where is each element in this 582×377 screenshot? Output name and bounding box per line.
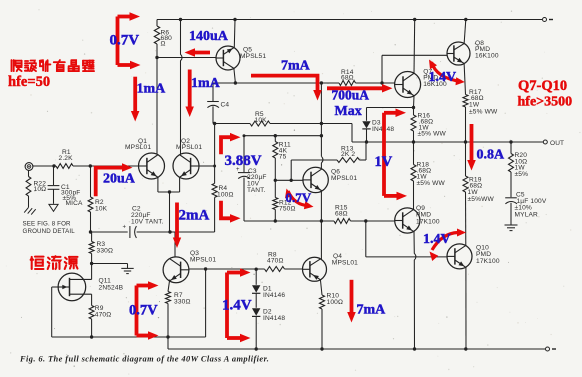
svg-text:IN4148: IN4148 [263,315,285,322]
resistor R9 [89,306,94,338]
svg-text:1.4V: 1.4V [222,298,252,314]
wire Q6 base [275,179,303,181]
svg-text:1V: 1V [375,154,393,170]
svg-text:1.4V: 1.4V [423,232,451,247]
svg-text:17K100: 17K100 [416,218,440,225]
label R17 .68 ohm [469,89,498,116]
label 1.4V mid-right [423,232,451,247]
wire Q3 collector to tail node [174,232,176,257]
transistor Q7 [395,72,421,98]
label hfe>3500 red [518,95,573,110]
label R20 10 ohm [515,152,529,178]
resistor R10 [320,295,325,349]
label R11 4K75 [279,141,291,160]
label 20uA [103,171,136,186]
caption figure 6 [19,355,269,364]
svg-text:MPSL01: MPSL01 [125,144,151,151]
node top rail junction dots [179,18,468,21]
label R6 680 ohm [161,30,173,48]
svg-text:1W: 1W [468,189,479,196]
annotation 1V bracket [384,109,407,201]
capacitor C2 [123,225,137,239]
label 700uA Max [332,88,370,120]
wire feedback node horizontal [91,231,215,233]
resistor R18 [411,142,416,210]
label R18 .68 ohm [417,162,446,188]
label C1 300pF [61,184,83,207]
resistor R15 [334,219,351,224]
node dots on R5 wire [213,122,323,125]
label C2 220uF [131,205,164,225]
svg-text:10K: 10K [255,117,268,124]
svg-text:1mA: 1mA [191,76,221,91]
svg-text:hfe=50: hfe=50 [8,74,50,90]
svg-text:1mA: 1mA [137,82,167,97]
label 1mA left [137,82,167,97]
ground earth mid [121,268,133,273]
label 7mA bottom [357,303,387,318]
svg-text:2.2K: 2.2K [59,155,74,162]
svg-text:0.7V: 0.7V [286,190,312,205]
wire Q11 drain up [91,264,93,280]
svg-text:MPSL01: MPSL01 [331,175,357,182]
resistor R12 [273,180,278,221]
svg-text:MICA: MICA [66,200,84,207]
svg-text:10Ω: 10Ω [34,186,47,193]
wire input to Q1 base [33,165,139,167]
annotation 2mA arrow [173,203,181,249]
label Q8 PMD 16K100 [475,40,499,60]
transistor Q1 [139,153,165,179]
svg-text:10K: 10K [95,205,108,212]
node input junction dots [52,164,92,167]
resistor R3 [89,232,94,264]
wire R4 vertical branch [214,124,216,233]
wire Q2 base tap [199,165,216,168]
label Q1 MPSL01 [125,138,151,151]
wire Q3 emitter [168,280,170,292]
svg-text:+: + [123,225,127,231]
wire Q9 emitter down with hop [414,231,416,349]
label 0.8A [477,148,506,163]
wire Q6 emitter to R15 node [320,191,322,221]
wire Q1 Q2 emitter join [158,177,180,232]
annotation 1.4V curve at Q9 Q10 [430,229,467,262]
resistor R19 [463,142,468,246]
resistor R8 [265,267,285,272]
svg-text:470Ω: 470Ω [95,312,112,319]
annotation 0.7V bracket top-left [118,12,141,69]
wire Q5 collector to rail [233,20,236,48]
wire Q11 source to R9 [91,294,93,305]
label R4 100 ohm [217,185,234,199]
svg-text:C4: C4 [221,102,230,109]
label OUT [550,140,564,147]
svg-text:0.7V: 0.7V [110,33,140,49]
terminal +V rail end [543,18,554,22]
annotation 7mA arrow top [251,76,322,101]
transistor Q11 JFET [58,273,91,301]
svg-text:2mA: 2mA [179,208,210,224]
svg-text:17K100: 17K100 [476,258,500,265]
annotation 0.7V diagonal at Q6 [285,189,314,210]
wire R15 rail y221 [244,220,395,222]
terminal bottom rail end [546,347,557,351]
label Chinese constant current source [31,256,78,269]
wire Q3 base to bias node [189,268,206,270]
svg-text:2K 2: 2K 2 [341,151,355,158]
node D1 top dot [255,268,258,271]
svg-text:Max: Max [335,104,362,119]
label C4 [221,102,230,109]
node output rail dots [365,140,513,143]
label Q6 MPSL01 [331,168,357,182]
svg-text:7mA: 7mA [357,303,387,318]
label 1mA right [191,76,221,91]
node dots x321 [320,134,323,137]
wire output rail [352,141,543,143]
transistor Q4 [303,257,327,281]
svg-text:±5% WW: ±5% WW [418,131,447,138]
label R1 2.2K [59,149,74,162]
capacitor C5 [505,198,517,225]
wire Q2 collector from rail with crossover hop [181,20,183,155]
svg-text:140uA: 140uA [189,29,229,44]
svg-text:330Ω: 330Ω [174,298,191,305]
label 0.7V top-left [110,33,140,49]
wire +V top supply rail [157,19,542,21]
annotation 20uA bracket [96,163,133,196]
label R14 68 ohm [341,69,354,82]
label Q10 PMD 17K100 [476,245,500,265]
annotation 0.7V bracket bottom-left [137,281,159,340]
diode D1 [252,269,260,308]
wire to ground branch [92,264,128,269]
svg-text:3.88V: 3.88V [225,153,262,169]
svg-text:1.4V: 1.4V [429,70,457,85]
label C5 .1uF mylar [515,191,547,218]
svg-text:±5%: ±5% [515,171,529,178]
wire R13 branch from Q6 base [291,142,366,180]
svg-text:MPSL01: MPSL01 [190,256,216,263]
ground earth under C1 [49,204,58,211]
svg-text:0.7V: 0.7V [129,303,158,319]
node R6 bottom junction [155,56,158,59]
wire Q7 emitter down [413,96,416,108]
annotation 7mA arrow bottom [347,280,356,323]
resistor R14 [339,81,356,86]
transistor Q3 [163,257,189,283]
wire Q2-collector node to Q5 base [157,57,216,59]
svg-text:16K100: 16K100 [475,53,499,60]
label R12 750 ohm [279,199,296,212]
label 0.7V at Q6 [286,190,312,205]
wire Q1 collector line [156,58,158,155]
svg-text:100Ω: 100Ω [327,299,344,306]
diode D3 [362,108,413,143]
ground chassis under R22 [24,207,36,214]
label 2mA [179,208,210,224]
annotation 3.88V bracket [221,133,241,223]
resistor R22 [26,170,31,207]
label R13 2K2 [341,145,355,158]
resistor R1 [56,164,73,169]
svg-text:100Ω: 100Ω [217,192,234,199]
svg-text:MPSL51: MPSL51 [240,53,266,60]
capacitor C1 [48,166,60,204]
wire Q5 emitter down [234,68,236,83]
label R2 10K [95,199,108,212]
svg-text:2N524B: 2N524B [99,284,124,291]
resistor R11 [273,136,278,181]
svg-text:0.8A: 0.8A [477,148,506,163]
svg-text:1W: 1W [469,102,480,109]
svg-text:700uA: 700uA [332,88,370,103]
label Chinese assume all transistors [12,60,95,71]
wire bias node down to bottom-left wire [205,269,207,337]
transistor Q8 [447,42,470,65]
resistor R4 [212,183,217,197]
svg-text:Fig. 6. The full schematic dia: Fig. 6. The full schematic diagram of th… [19,355,269,364]
svg-text:SEE FIG. 8 FOR: SEE FIG. 8 FOR [23,221,72,228]
wire VAS collector vertical x321 [321,83,323,169]
label R19 .68 ohm [468,177,495,204]
label R10 100 ohm [327,293,344,306]
label 1.4V bottom [222,298,252,314]
label 140uA [189,29,229,44]
svg-text:±5%WW: ±5%WW [468,196,495,203]
wire R11 top node [243,134,322,137]
svg-text:10V TANT.: 10V TANT. [131,219,164,226]
resistor R13 [337,158,360,163]
label 1.4V top-right [429,70,457,85]
node Q7 emitter dot [412,106,415,109]
label 7mA top [281,59,311,74]
wire Q4 emitter to R10 [320,280,322,296]
label D3 IN4148 [372,120,394,133]
label R15 68 ohm [335,204,348,217]
wire R5 feedback from output [213,124,352,143]
svg-text:MPSL01: MPSL01 [176,144,202,151]
resistor R17 [463,95,468,143]
wire bottom supply rail [168,348,545,350]
label 0.7V bottom-left [129,303,158,319]
diode D2 [252,308,260,349]
resistor R2 [88,166,93,232]
annotation 1mA arrow left [131,77,140,122]
svg-text:±5% WW: ±5% WW [469,109,498,116]
label R22 10 ohm [34,180,47,193]
resistor R20 [509,142,514,197]
annotation 700uA arrow [327,84,393,93]
label Q11 2N5248 [99,278,124,292]
label see fig8 ground detail [23,221,76,236]
resistor R6 [154,20,159,58]
svg-text:68Ω: 68Ω [341,75,354,82]
resistor R5 [250,121,270,126]
label Q3 MPSL01 [190,250,216,263]
wire Q8 emitter to R17 [464,63,465,95]
svg-text:hfe>3500: hfe>3500 [518,95,573,110]
terminal OUT [543,140,547,144]
wire Q11 gate loop [52,287,59,337]
svg-text:470Ω: 470Ω [267,258,284,265]
svg-text:Q7-Q10: Q7-Q10 [518,78,567,94]
resistor R16 [411,108,416,143]
label R7 330 ohm [174,292,191,305]
label Q5 MPSL51 [240,47,266,60]
label C3 220uF tantalum [236,167,267,194]
ground earth under C5 [505,225,518,231]
svg-text:20uA: 20uA [103,171,136,186]
label 3.88V [225,153,262,169]
label Q2 MPSL01 [176,138,202,151]
connector input jack [25,163,33,171]
transistor Q5 [216,46,240,70]
wire Q8 collector from rail [464,20,466,45]
annotation 1mA arrow right [185,70,194,118]
svg-text:IN4146: IN4146 [263,292,285,299]
node bottom rail dots [255,347,468,350]
node wire232 dots [89,230,172,233]
node Q6 base dots [274,179,293,182]
node Q3 base dot [204,267,207,270]
transistor Q10 [447,244,472,269]
node dot x321 y221 [320,219,323,222]
node dots on y83 wire [234,81,384,84]
label R3 330 ohm [97,241,114,255]
svg-text:±5% WW: ±5% WW [417,180,446,187]
label 1V [375,154,393,170]
svg-text:75: 75 [279,153,287,160]
wire bottom-left return [52,336,206,338]
node dots y221 [274,219,368,222]
annotation 1.4V curve at Q7 Q8 [429,60,465,86]
capacitor C3 [238,136,250,221]
label D2 IN4148 [263,309,285,323]
annotation 1.4V bracket bottom [227,268,251,342]
node dots bottom-left wire [90,335,170,338]
svg-text:Ω: Ω [161,41,166,48]
svg-text:MPSL01: MPSL01 [332,260,358,267]
node R3 bottom dot [90,262,93,265]
resistor R7 [166,292,171,350]
svg-text:MYLAR: MYLAR [515,211,539,218]
label hfe=50 red [8,74,50,90]
svg-text:GROUND DETAIL: GROUND DETAIL [23,228,76,235]
wire driver lower vertical to Q4 [320,221,322,260]
annotation 140uA arrow [185,48,211,57]
transistor Q6 [303,167,328,192]
label D1 IN4146 [263,285,285,299]
svg-text:750Ω: 750Ω [279,206,296,213]
wire Q10 base link [366,221,447,257]
wire bias diode chain [206,268,303,270]
svg-text:68Ω: 68Ω [335,211,348,218]
label Q9 PMD 17K100 [416,205,440,225]
label R8 470 ohm [267,251,284,264]
svg-text:7mA: 7mA [281,59,311,74]
wire Q7 collector from rail [413,20,416,74]
node emitter join dot [168,190,171,193]
transistor Q2 [173,153,199,179]
label R9 470 ohm [95,305,112,319]
label R16 .68 ohm [418,112,447,137]
wire Q10 emitter down [465,267,467,349]
label Q4 MPSL01 [332,253,358,267]
wire Q7 base riser to Q8 base [382,55,447,83]
annotation 0.8A arrow [467,124,476,171]
svg-text:330Ω: 330Ω [97,248,114,255]
svg-text:OUT: OUT [550,140,564,147]
transistor Q9 [395,208,420,233]
label Q7 PMD 16K100 [423,68,447,88]
label Q7-Q10 red [518,78,567,94]
capacitor C4 [207,83,219,124]
wire Q5 emitter node to Q7 base [213,82,395,84]
label R5 10K [255,111,268,124]
svg-text:TANT.: TANT. [247,187,266,194]
